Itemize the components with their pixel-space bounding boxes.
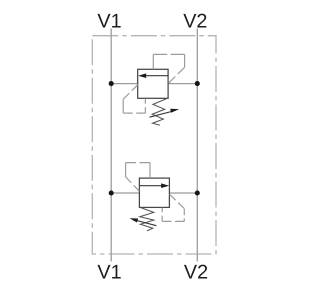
svg-text:V1: V1: [97, 11, 121, 33]
junction node: bottom valve on V1: [109, 190, 114, 195]
relief valve RV2 body (square): [139, 178, 169, 207]
RV2 spring: [140, 208, 154, 231]
RV1 adjustment arrow: [149, 109, 179, 118]
port line V1 (vertical): [110, 29, 112, 262]
wire: top valve left port: [111, 83, 138, 85]
port line V2 (vertical): [196, 29, 198, 262]
svg-text:V2: V2: [184, 262, 208, 284]
wire: bottom valve right port: [169, 192, 197, 194]
RV1 spring: [152, 99, 166, 125]
enclosure boundary (chain line): [92, 36, 216, 254]
RV1 flow arrow (points left): [138, 73, 168, 78]
wire: bottom valve left port: [111, 192, 139, 194]
junction node: top valve on V1: [109, 81, 114, 86]
junction node: top valve on V2: [195, 81, 200, 86]
RV2 pilot line (from V1 port to top of body): [126, 163, 150, 192]
RV2 spring-chamber drain line (to V2 port): [162, 194, 184, 221]
svg-text:V1: V1: [97, 262, 121, 284]
svg-text:V2: V2: [183, 11, 207, 33]
relief valve RV1 body (square): [138, 69, 168, 98]
RV1 pilot line (from V2 port to top of body): [153, 54, 184, 83]
junction node: bottom valve on V2: [195, 190, 200, 195]
RV1 spring-chamber drain line (to V1 port): [123, 85, 145, 114]
RV2 flow arrow (points right): [139, 183, 169, 188]
RV2 adjustment arrow: [130, 218, 157, 225]
wire: top valve right port: [168, 83, 197, 85]
